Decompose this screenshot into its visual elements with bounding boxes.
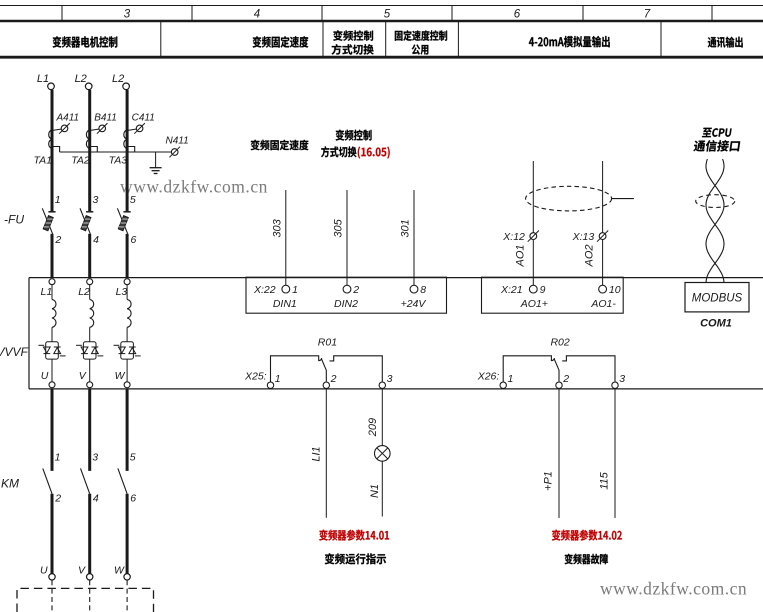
svg-text:TA2: TA2 xyxy=(71,155,90,167)
svg-text:C411: C411 xyxy=(132,113,155,124)
svg-text:1: 1 xyxy=(275,373,281,385)
svg-text:LI1: LI1 xyxy=(311,446,323,461)
svg-text:X26:: X26: xyxy=(477,371,500,383)
svg-text:AO1: AO1 xyxy=(514,244,526,267)
svg-text:5: 5 xyxy=(130,194,136,206)
svg-text:3: 3 xyxy=(92,452,98,464)
svg-text:1: 1 xyxy=(55,194,61,206)
svg-text:3: 3 xyxy=(124,8,131,20)
svg-text:6: 6 xyxy=(514,8,521,20)
svg-text:AO1-: AO1- xyxy=(590,298,616,310)
svg-text:303: 303 xyxy=(272,218,284,237)
svg-text:W: W xyxy=(115,370,126,382)
svg-text:VVVF: VVVF xyxy=(0,345,29,359)
svg-text:L2: L2 xyxy=(78,286,90,298)
svg-text:6: 6 xyxy=(131,234,137,246)
svg-text:-FU: -FU xyxy=(4,213,24,227)
svg-text:5: 5 xyxy=(130,452,136,464)
svg-text:2: 2 xyxy=(562,373,569,385)
svg-text:V: V xyxy=(79,370,87,382)
svg-text:X:13: X:13 xyxy=(572,231,595,243)
svg-text:2: 2 xyxy=(330,373,337,385)
svg-text:L1: L1 xyxy=(41,286,53,298)
svg-text:AO1+: AO1+ xyxy=(520,298,548,310)
svg-text:N411: N411 xyxy=(166,136,189,147)
svg-text:2: 2 xyxy=(54,493,61,505)
svg-text:DIN2: DIN2 xyxy=(334,298,358,310)
svg-text:4: 4 xyxy=(93,493,99,505)
svg-text:V: V xyxy=(78,565,86,577)
svg-text:+24V: +24V xyxy=(401,298,427,310)
svg-text:AO2: AO2 xyxy=(584,244,596,267)
svg-text:N1: N1 xyxy=(369,484,381,498)
svg-text:1: 1 xyxy=(55,452,61,464)
svg-text:L3: L3 xyxy=(116,286,128,298)
svg-text:COM1: COM1 xyxy=(700,318,732,330)
svg-text:U: U xyxy=(41,370,49,382)
svg-text:7: 7 xyxy=(644,8,651,20)
svg-text:TA3: TA3 xyxy=(109,155,128,167)
svg-text:6: 6 xyxy=(130,493,136,505)
svg-text:4: 4 xyxy=(254,8,260,20)
svg-text:3: 3 xyxy=(93,194,99,206)
svg-text:3: 3 xyxy=(387,373,393,385)
svg-text:115: 115 xyxy=(599,471,611,489)
svg-text:8: 8 xyxy=(420,284,426,296)
svg-text:209: 209 xyxy=(367,418,379,437)
svg-text:X:12: X:12 xyxy=(502,231,525,243)
svg-text:L2: L2 xyxy=(112,73,124,85)
svg-text:B411: B411 xyxy=(94,113,117,124)
svg-text:X:21: X:21 xyxy=(500,284,523,296)
svg-text:www.dzkfw.com.cn: www.dzkfw.com.cn xyxy=(120,177,268,197)
svg-text:A411: A411 xyxy=(56,113,80,124)
svg-text:L2: L2 xyxy=(75,73,87,85)
svg-text:R01: R01 xyxy=(318,337,337,349)
svg-text:www.dzkfw.com.cn: www.dzkfw.com.cn xyxy=(600,579,747,599)
svg-text:301: 301 xyxy=(400,219,412,237)
svg-text:3: 3 xyxy=(619,373,625,385)
svg-text:10: 10 xyxy=(609,284,621,296)
svg-text:MODBUS: MODBUS xyxy=(692,293,743,305)
svg-text:2: 2 xyxy=(54,234,61,246)
svg-text:R02: R02 xyxy=(550,337,569,349)
svg-text:L1: L1 xyxy=(37,73,49,85)
svg-text:1: 1 xyxy=(292,284,298,296)
svg-text:U: U xyxy=(40,565,48,577)
svg-text:TA1: TA1 xyxy=(34,155,52,167)
svg-text:DIN1: DIN1 xyxy=(273,298,297,310)
svg-text:305: 305 xyxy=(333,218,345,237)
svg-text:+P1: +P1 xyxy=(543,471,555,491)
svg-text:W: W xyxy=(114,565,125,577)
svg-text:KM: KM xyxy=(1,477,19,491)
svg-text:5: 5 xyxy=(384,8,391,20)
svg-text:1: 1 xyxy=(508,373,514,385)
svg-text:X:22: X:22 xyxy=(253,284,276,296)
svg-text:4: 4 xyxy=(93,234,99,246)
svg-text:9: 9 xyxy=(540,284,546,296)
svg-text:2: 2 xyxy=(352,284,359,296)
svg-text:X25:: X25: xyxy=(244,371,267,383)
